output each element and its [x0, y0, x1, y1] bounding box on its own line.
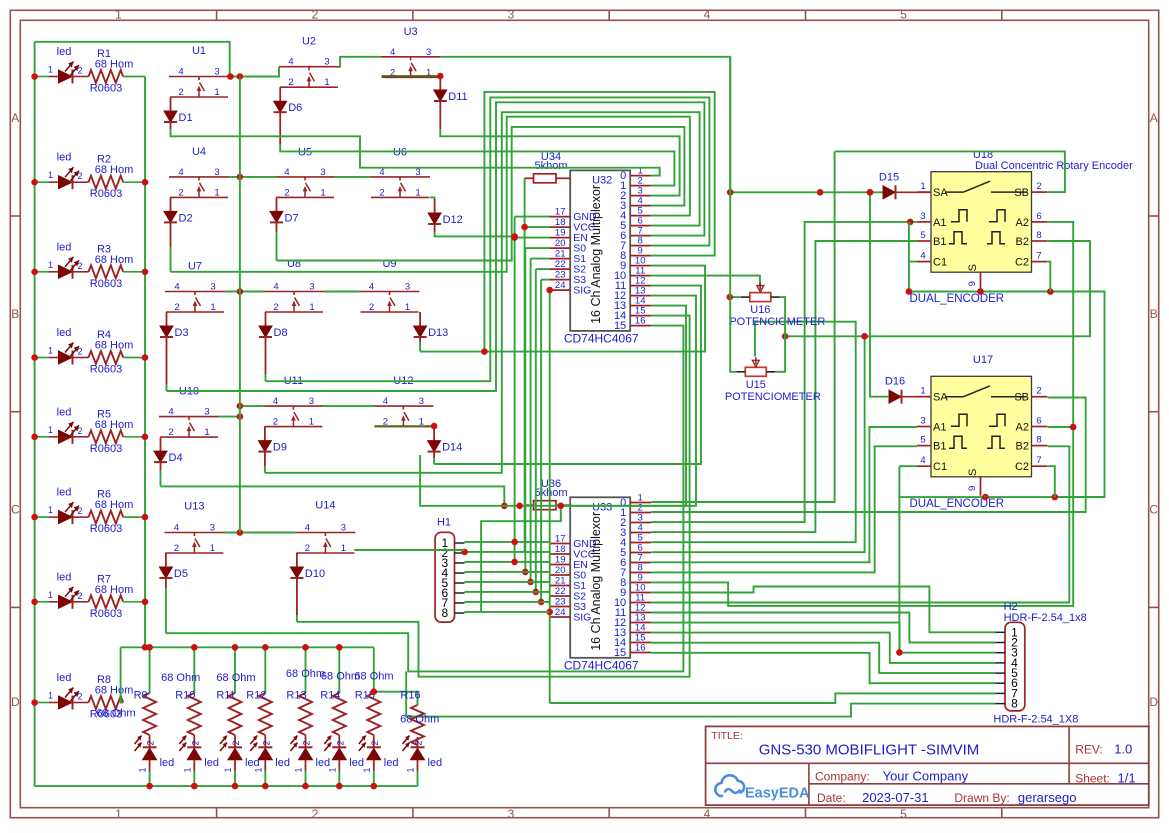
svg-text:D16: D16 [885, 376, 905, 388]
svg-text:16 Ch Analog Multiplexor: 16 Ch Analog Multiplexor [589, 512, 603, 651]
pushbutton switch U8 [264, 291, 324, 293]
pin 4 channel 3 [630, 532, 651, 534]
svg-text:C1: C1 [933, 461, 947, 473]
svg-text:2: 2 [312, 8, 319, 22]
svg-text:2: 2 [174, 543, 179, 554]
junction [511, 539, 518, 546]
H1 pin 2 [455, 552, 465, 554]
pin 3 A1 [917, 426, 931, 428]
pin 3 channel 2 [630, 522, 651, 524]
pushbutton switch U2 [279, 66, 339, 68]
pin 15 channel 14 [630, 315, 651, 317]
pushbutton switch U11 [263, 405, 323, 407]
junction [501, 503, 508, 510]
svg-text:A: A [1150, 111, 1158, 125]
svg-text:D: D [1149, 695, 1158, 709]
wire U32 pin7 loop to D3 [167, 102, 705, 391]
wire [123, 601, 145, 603]
LED led7 row 7 [35, 601, 49, 603]
svg-text:1: 1 [309, 302, 314, 313]
LED led6 row 6 [35, 516, 49, 518]
svg-text:1: 1 [920, 181, 925, 192]
pin 17 GND [549, 543, 570, 545]
wire U33 pin7 to U17 A1 [651, 427, 917, 562]
junction [191, 783, 198, 790]
svg-text:Dual Concentric Rotary Encoder: Dual Concentric Rotary Encoder [975, 160, 1133, 172]
svg-text:16: 16 [635, 316, 646, 327]
svg-text:led: led [57, 571, 72, 583]
svg-text:8: 8 [1011, 697, 1018, 711]
svg-text:led: led [57, 487, 72, 499]
junction [431, 423, 438, 430]
junction [191, 644, 198, 651]
resistor R16 68 Ohm [411, 705, 424, 745]
wire U18 S stub join [980, 290, 982, 292]
junction [1047, 288, 1054, 295]
svg-text:2: 2 [414, 740, 424, 745]
svg-text:1: 1 [406, 767, 416, 772]
H2 pin 6 [996, 682, 1006, 684]
resistor R12 68 Ohm [259, 693, 272, 735]
junction [371, 688, 378, 695]
svg-text:SIG: SIG [573, 612, 591, 624]
svg-text:7: 7 [1036, 455, 1041, 466]
diode D6 [279, 87, 281, 101]
junction [227, 73, 234, 80]
pin 11 channel 10 [630, 602, 651, 604]
wire R16 top jog [374, 692, 418, 705]
pin 1 SA [917, 191, 931, 193]
LED led vertical [264, 737, 266, 747]
svg-text:C1: C1 [933, 257, 947, 269]
svg-text:1: 1 [182, 767, 192, 772]
svg-text:3: 3 [341, 523, 346, 534]
diode D14 [433, 427, 435, 441]
svg-text:1: 1 [920, 386, 925, 397]
wire U33 pin6 riser [651, 336, 864, 552]
LED led4 row 4 [35, 357, 49, 359]
svg-text:18: 18 [555, 217, 566, 228]
pushbutton switch U4 [169, 176, 229, 178]
svg-text:Date:: Date: [817, 791, 846, 805]
svg-text:led: led [57, 241, 72, 253]
junction [302, 644, 309, 651]
wire S3 net [541, 279, 549, 281]
svg-text:7: 7 [1036, 251, 1041, 262]
svg-text:2: 2 [190, 740, 200, 745]
wire S0 net [525, 247, 549, 249]
svg-text:C2: C2 [1015, 257, 1029, 269]
wire [324, 291, 361, 293]
wire LED15 to bottom bus [373, 771, 375, 786]
wire bottom bottom bus [35, 785, 418, 787]
svg-text:4: 4 [174, 523, 179, 534]
svg-text:2: 2 [168, 427, 173, 438]
svg-text:HDR-F-2.54_1x8: HDR-F-2.54_1x8 [1004, 612, 1087, 624]
junction [906, 288, 913, 295]
frame tick [216, 10, 218, 20]
svg-text:2: 2 [369, 302, 374, 313]
svg-text:18: 18 [555, 544, 566, 555]
svg-text:SB: SB [1014, 392, 1029, 404]
pin 23 S3 [549, 606, 570, 608]
svg-text:3: 3 [320, 167, 325, 178]
junction [727, 189, 734, 196]
potentiometer U16 [750, 293, 771, 302]
svg-text:D7: D7 [285, 212, 299, 224]
wire [123, 357, 145, 359]
junction [142, 644, 149, 651]
svg-text:2: 2 [77, 426, 82, 436]
resistor R14 68 Ohm [333, 693, 346, 735]
svg-text:2: 2 [370, 740, 380, 745]
svg-text:19: 19 [555, 555, 566, 566]
svg-text:3: 3 [426, 47, 431, 58]
svg-text:H1: H1 [437, 517, 451, 529]
wire [229, 176, 276, 178]
svg-text:D6: D6 [288, 102, 302, 114]
wire [165, 588, 167, 633]
wire left LED bus [34, 42, 36, 786]
wire [166, 384, 168, 391]
svg-text:C: C [11, 503, 20, 517]
wire LED12 to bottom bus [264, 771, 266, 786]
wire U32 pin5 loop to D2 [171, 117, 690, 272]
pushbutton switch U13 [164, 532, 224, 534]
H2 pin 2 [996, 642, 1006, 644]
junction [982, 494, 989, 501]
svg-text:U2: U2 [302, 36, 316, 48]
svg-text:R0603: R0603 [90, 278, 122, 290]
pin 19 EN [549, 237, 570, 239]
junction [336, 644, 343, 651]
svg-text:led: led [57, 327, 72, 339]
svg-text:SA: SA [933, 187, 948, 199]
svg-text:68 Hom: 68 Hom [95, 584, 134, 596]
svg-text:6: 6 [1036, 211, 1041, 222]
wire U33 pin2 to U17 SB [651, 398, 1085, 513]
wire R14 to LED [338, 735, 340, 737]
svg-text:Company:: Company: [815, 769, 870, 783]
svg-text:B2: B2 [1016, 441, 1029, 453]
wire [218, 416, 240, 418]
svg-text:2023-07-31: 2023-07-31 [862, 790, 929, 805]
wire [171, 129, 660, 176]
wire [160, 470, 162, 486]
resistor R13 68 Ohm [299, 693, 312, 735]
wire SIG net [548, 289, 551, 291]
wire U33 pin13 to H2 pin3 [651, 623, 995, 653]
encoder switch symbol [945, 191, 964, 193]
D15 pin wires [896, 191, 932, 193]
svg-text:24: 24 [555, 607, 566, 618]
encoder switch symbol [945, 396, 964, 398]
wire bottom top bus [121, 646, 374, 648]
junction [1070, 424, 1077, 431]
svg-text:led: led [57, 406, 72, 418]
junction [533, 589, 540, 596]
wire [280, 144, 674, 186]
waveform glyph [987, 436, 1005, 448]
wire LED16 to bottom bus [417, 771, 419, 786]
svg-text:3: 3 [204, 407, 209, 418]
svg-text:B: B [11, 307, 19, 321]
wire D12 to GND/EN vertical [435, 232, 515, 236]
pin 15 channel 14 [630, 642, 651, 644]
svg-text:68 Ohm: 68 Ohm [161, 672, 200, 684]
junction [516, 503, 523, 510]
wire U18 C1 stub [909, 261, 917, 263]
wire U33 pin1 to U18 SB net [651, 151, 834, 502]
svg-text:R9: R9 [134, 690, 148, 702]
svg-text:4: 4 [284, 167, 289, 178]
pin 23 S3 [549, 279, 570, 281]
pin 24 SIG [549, 289, 570, 291]
junction LED bus right [142, 179, 149, 186]
svg-text:R0603: R0603 [90, 364, 122, 376]
junction [336, 783, 343, 790]
svg-text:68 Hom: 68 Hom [95, 419, 134, 431]
wire U32 pin11 to U16 wiper [651, 276, 760, 288]
svg-text:B2: B2 [1016, 236, 1029, 248]
pushbutton switch U9 [360, 291, 420, 293]
LED led vertical [234, 737, 236, 747]
IC U32 CD74HC4067 16ch analog multiplexer [570, 170, 630, 331]
wire U33 pin11 to U17 B2 [651, 446, 1069, 602]
svg-text:A1: A1 [933, 217, 946, 229]
svg-text:B: B [1150, 307, 1158, 321]
wire U18 bottom common [909, 222, 1105, 497]
junction LED bus [31, 599, 38, 606]
H1 pin 3 [455, 562, 465, 564]
wire R13 to LED [305, 735, 307, 737]
svg-text:D: D [11, 695, 20, 709]
pin 9 channel 8 [630, 582, 651, 584]
wire S2 net [536, 268, 549, 270]
svg-text:2: 2 [284, 187, 289, 198]
svg-text:D3: D3 [175, 327, 189, 339]
wire U32 pin6 loop to D9 [265, 112, 700, 473]
resistor R11 68 Ohm [229, 693, 242, 735]
wire U17 C2 stub down [1048, 466, 1055, 497]
diode D13 [419, 312, 421, 326]
junction [522, 569, 529, 576]
svg-text:4: 4 [383, 396, 388, 407]
svg-text:2: 2 [77, 171, 82, 181]
svg-text:2: 2 [146, 740, 156, 745]
svg-text:S: S [967, 264, 979, 271]
junction [511, 233, 518, 240]
junction [371, 783, 378, 790]
wire H1 pin3 [465, 561, 550, 563]
svg-text:3: 3 [405, 282, 410, 293]
pin 17 GND [549, 216, 570, 218]
svg-text:led: led [160, 757, 175, 769]
frame tick [10, 411, 20, 413]
svg-text:1: 1 [48, 170, 53, 180]
pin 5 channel 4 [630, 542, 651, 544]
wire [223, 532, 296, 534]
svg-text:1: 1 [223, 767, 233, 772]
junction [817, 189, 824, 196]
H1 pin 5 [455, 582, 465, 584]
wire D15 anode net [730, 191, 883, 193]
svg-text:1: 1 [415, 187, 420, 198]
svg-text:4: 4 [920, 455, 925, 466]
junction [546, 287, 553, 294]
svg-text:D5: D5 [174, 568, 188, 580]
junction [237, 403, 244, 410]
junction LED bus right [142, 514, 149, 521]
diode D1 [170, 97, 172, 111]
H2 pin 1 [996, 631, 1006, 633]
svg-text:D4: D4 [169, 452, 183, 464]
pushbutton switch U10 [159, 416, 219, 418]
svg-text:1: 1 [405, 302, 410, 313]
wire LED10 to bottom bus [193, 771, 195, 786]
wire H1 pin7 [465, 601, 550, 603]
wire [225, 291, 265, 293]
svg-text:led: led [428, 757, 443, 769]
wire [322, 405, 374, 407]
wire U32 pin9 loop to D13 [420, 92, 715, 352]
wire top feed to U1 [35, 42, 230, 77]
svg-text:68 Ohm: 68 Ohm [216, 672, 255, 684]
junction [461, 549, 468, 556]
svg-text:2: 2 [77, 66, 82, 76]
junction [237, 73, 244, 80]
svg-text:R0603: R0603 [90, 608, 122, 620]
pin 4 channel 3 [630, 205, 651, 207]
diode D9 [264, 427, 266, 441]
pin 2 SB [1032, 191, 1048, 193]
wire R11 to LED [234, 735, 236, 737]
wire to H2 pin8 [406, 671, 995, 716]
resistor R2 68 Hom [89, 176, 124, 189]
svg-text:8: 8 [441, 606, 448, 620]
junction [481, 348, 488, 355]
svg-text:5: 5 [920, 230, 925, 241]
svg-text:1: 1 [253, 767, 263, 772]
junction LED bus right [142, 354, 149, 361]
svg-text:1: 1 [48, 260, 53, 270]
svg-text:REV:: REV: [1075, 743, 1103, 757]
svg-text:2: 2 [288, 77, 293, 88]
waveform glyph [949, 436, 967, 448]
junction LED bus right [142, 434, 149, 441]
svg-text:2: 2 [273, 417, 278, 428]
LED led vertical [338, 737, 340, 747]
svg-text:U13: U13 [184, 501, 204, 513]
junction [527, 579, 534, 586]
wire [441, 57, 731, 193]
junction LED bus [31, 514, 38, 521]
diode D16 [889, 390, 901, 403]
svg-text:16 Ch Analog Multiplexor: 16 Ch Analog Multiplexor [589, 185, 603, 324]
pin 5 B1 [917, 445, 931, 447]
junction [237, 174, 244, 181]
svg-text:D2: D2 [179, 212, 193, 224]
svg-text:2: 2 [77, 591, 82, 601]
wire H1 pin5 [465, 581, 550, 583]
svg-text:R16: R16 [400, 690, 420, 702]
svg-text:1: 1 [115, 807, 122, 821]
LED led5 row 5 [35, 436, 49, 438]
wire D12 jog from U6 pin1 [430, 197, 435, 199]
junction [237, 413, 244, 420]
pin 5 B1 [917, 240, 931, 242]
wire column R13 [305, 647, 307, 693]
wire U32 pin10 to D13 bus [484, 266, 705, 352]
diode D15 [883, 186, 895, 199]
wire net left of U33 tail [481, 506, 561, 612]
svg-text:1: 1 [309, 417, 314, 428]
svg-text:U6: U6 [393, 147, 407, 159]
resistor R1 68 Hom [89, 70, 124, 83]
svg-text:S: S [967, 469, 979, 476]
pin 4 C1 [917, 261, 931, 263]
svg-text:A1: A1 [933, 422, 946, 434]
svg-text:68 Hom: 68 Hom [95, 254, 134, 266]
wire H1 pin4 [465, 571, 550, 573]
svg-text:GNS-530 MOBIFLIGHT -SIMVIM: GNS-530 MOBIFLIGHT -SIMVIM [759, 742, 980, 759]
svg-text:4: 4 [273, 396, 278, 407]
resistor R5 68 Hom [89, 430, 124, 443]
LED led vertical [373, 737, 375, 747]
junction [867, 189, 874, 196]
wire D4 bus to net line [161, 486, 505, 505]
wire column R14 [338, 647, 340, 693]
svg-text:U7: U7 [188, 261, 202, 273]
svg-text:3: 3 [309, 396, 314, 407]
svg-text:17: 17 [555, 534, 566, 545]
pin 2 channel 1 [630, 512, 651, 514]
wire U33 pin15 to H2 pin5 [651, 643, 995, 673]
H2 pin 3 [996, 652, 1006, 654]
svg-text:R14: R14 [320, 690, 340, 702]
svg-text:R0603: R0603 [90, 188, 122, 200]
LED led1 row 1 [35, 76, 49, 78]
wire U17 C1 stub [899, 465, 917, 467]
wire right LED bus [144, 77, 146, 648]
junction [727, 294, 734, 301]
svg-text:U17: U17 [973, 354, 993, 366]
svg-text:DUAL_ENCODER: DUAL_ENCODER [910, 293, 1005, 305]
wire S1 net [531, 258, 550, 260]
svg-text:4: 4 [273, 282, 278, 293]
wire GND net [515, 216, 550, 218]
svg-text:R12: R12 [246, 690, 266, 702]
svg-text:led: led [57, 152, 72, 164]
LED led2 row 2 [35, 181, 49, 183]
junction [782, 333, 789, 340]
svg-text:1: 1 [48, 505, 53, 515]
junction [262, 644, 269, 651]
svg-text:led: led [275, 757, 290, 769]
junction LED bus [31, 434, 38, 441]
svg-text:15: 15 [614, 320, 626, 332]
wire [229, 67, 279, 77]
frame tick [1001, 10, 1003, 20]
svg-text:5khom: 5khom [534, 160, 567, 172]
junction [511, 234, 518, 241]
wire EN net [515, 237, 550, 239]
svg-text:led: led [245, 757, 260, 769]
junction [262, 783, 269, 790]
title block [706, 726, 1149, 805]
svg-text:1: 1 [362, 767, 372, 772]
wire [334, 176, 371, 178]
